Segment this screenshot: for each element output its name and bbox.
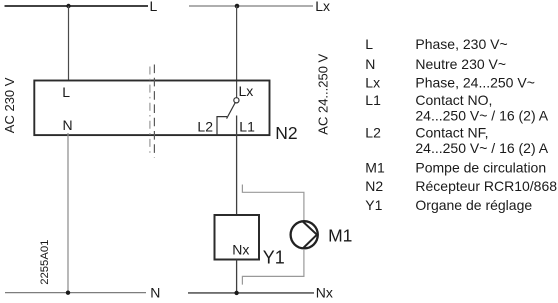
svg-text:Lx: Lx: [365, 75, 380, 91]
wire Lx top rail: [189, 5, 313, 7]
svg-text:Phase, 24...250 V~: Phase, 24...250 V~: [415, 75, 534, 91]
node L junction: [66, 4, 70, 8]
svg-text:L: L: [150, 0, 158, 14]
svg-text:L2: L2: [197, 118, 213, 134]
svg-text:N2: N2: [365, 178, 383, 194]
wire N bottom rail: [5, 292, 146, 294]
svg-text:L: L: [62, 84, 70, 100]
svg-text:L1: L1: [239, 118, 255, 134]
wire pump return (lower, external): [242, 249, 304, 285]
svg-text:Lx: Lx: [239, 83, 254, 99]
node Nx junction: [234, 291, 238, 295]
svg-text:2255A01: 2255A01: [39, 240, 51, 285]
wire L drop to N2 terminal L: [68, 6, 70, 81]
receiver N2 box: [34, 81, 269, 136]
svg-text:Contact NF,: Contact NF,: [415, 125, 488, 141]
svg-text:AC 230 V: AC 230 V: [2, 77, 17, 133]
relay lever: [227, 103, 236, 119]
svg-text:Phase, 230 V~: Phase, 230 V~: [415, 36, 507, 52]
svg-text:M1: M1: [328, 226, 352, 246]
svg-text:L1: L1: [365, 92, 381, 108]
node N junction: [66, 291, 70, 295]
wire Y1 to Nx rail: [236, 260, 238, 294]
svg-text:Nx: Nx: [232, 241, 249, 257]
svg-text:N: N: [63, 117, 73, 133]
svg-text:Lx: Lx: [315, 0, 330, 14]
svg-text:Organe de réglage: Organe de réglage: [415, 197, 532, 213]
svg-text:L2: L2: [365, 125, 381, 141]
contact L2 (NC): [217, 117, 227, 136]
node Lx junction: [235, 4, 240, 9]
svg-text:M1: M1: [365, 160, 385, 176]
relay contact pivot circle (Lx common): [234, 98, 239, 103]
wire L1 from contact to Y1: [236, 116, 238, 216]
svg-text:AC 24...250 V: AC 24...250 V: [316, 53, 331, 134]
svg-text:N: N: [365, 56, 375, 72]
wire Lx drop to relay common: [236, 6, 238, 98]
antenna dashed line right: [153, 65, 155, 159]
svg-text:N2: N2: [275, 123, 297, 143]
antenna dashed line left: [149, 67, 151, 158]
svg-text:24...250 V~ / 16 (2) A: 24...250 V~ / 16 (2) A: [415, 140, 548, 156]
pump M1 circle: [291, 221, 318, 248]
svg-text:Contact NO,: Contact NO,: [415, 92, 492, 108]
svg-text:Y1: Y1: [263, 247, 285, 267]
wire N from N2 to bottom rail: [67, 133, 69, 293]
svg-text:Neutre 230 V~: Neutre 230 V~: [415, 56, 506, 72]
actuator Y1 box: [215, 215, 260, 260]
svg-text:Pompe de circulation: Pompe de circulation: [415, 160, 546, 176]
wire Nx bottom rail: [188, 292, 314, 294]
wire pump feed (upper, external): [242, 185, 304, 221]
svg-text:Y1: Y1: [365, 197, 382, 213]
svg-text:24...250 V~ / 16 (2) A: 24...250 V~ / 16 (2) A: [415, 107, 548, 123]
wire L top rail: [5, 5, 149, 7]
svg-text:Récepteur RCR10/868: Récepteur RCR10/868: [415, 178, 557, 194]
svg-text:L: L: [365, 36, 373, 52]
svg-text:Nx: Nx: [316, 284, 333, 300]
legend: [365, 36, 557, 213]
pump M1 triangle: [303, 222, 317, 248]
svg-text:N: N: [150, 284, 160, 300]
